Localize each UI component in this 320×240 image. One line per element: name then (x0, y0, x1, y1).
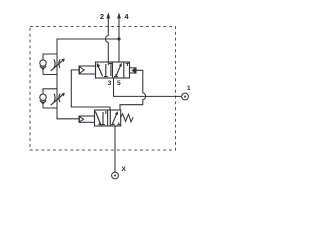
valve V1 5/2 body (96, 62, 130, 78)
valve V2 pilot triangle (79, 117, 83, 122)
valve V2 right position passage (109, 110, 111, 126)
FCV2 throttle arrow (51, 95, 63, 105)
wire port 2 vertical (with hop over wire A) (106, 17, 109, 62)
valve V2 divider (107, 110, 109, 126)
FCV2 check valve seat (40, 100, 46, 103)
valve V1 right position flow arrow (116, 65, 121, 76)
valve V2 3/2 body (95, 110, 121, 126)
port 4 arrow (117, 12, 121, 18)
svg-text:X: X (121, 166, 126, 173)
valve V1 left position passage stub (107, 62, 109, 65)
valve V1 left position blocked port T (104, 64, 108, 77)
wire left pilot of V1 to output of V2 (71, 70, 110, 110)
wire supply: valve V1 port 1 to port 1 circle (114, 78, 182, 96)
FCV2 throttle arcs (54, 94, 60, 102)
svg-text:2: 2 (100, 12, 104, 21)
valve V1 left pilot box (79, 66, 96, 74)
valve V2 left position blocked T (101, 112, 105, 125)
FCV1 check valve ball (40, 60, 46, 66)
valve V1 left pilot triangle (79, 67, 84, 74)
junction dot J1 (117, 37, 120, 40)
port X circle (112, 172, 119, 179)
valve V2 pilot box (79, 116, 95, 122)
valve V1 right position passage (123, 62, 125, 78)
enclosure dashed boundary (30, 27, 176, 151)
valve V2 right position blocked T (111, 122, 115, 125)
FCV1 throttle arrow (51, 61, 63, 71)
valve V1 left position blocked port T2 (109, 63, 113, 76)
valve V1 right position T top (126, 63, 130, 66)
wire port 4 vertical (118, 17, 120, 62)
svg-text:5: 5 (117, 80, 121, 87)
valve V1 divider (112, 62, 114, 78)
port 1 circle (182, 93, 189, 100)
FCV1 throttle arcs (54, 59, 60, 67)
svg-text:1: 1 (187, 85, 191, 92)
valve V2 left position stub (105, 111, 107, 114)
valve V1 right pilot box (130, 68, 137, 73)
valve V1 right pilot triangle (132, 68, 135, 73)
FCV2 check valve ball (40, 94, 46, 100)
valve V2 return spring (121, 114, 134, 122)
valve V2 exhaust T (117, 122, 120, 124)
wire right pilot of V1 to right output of V2 (hop over supply) (120, 70, 146, 110)
valve V1 right position blocked port T (114, 74, 118, 77)
port 2 arrow (106, 12, 110, 18)
flow control valve FCV1 body (43, 54, 57, 75)
wire port X: valve V2 to port X circle (114, 126, 116, 172)
port X inner dot (114, 175, 116, 177)
svg-text:3: 3 (108, 80, 112, 87)
port 1 inner dot (184, 96, 186, 98)
wire A: port 4 branch to flow controls (57, 39, 119, 119)
svg-text:4: 4 (124, 12, 129, 21)
valve V2 right position flow arrow (113, 113, 118, 124)
valve V1 left position flow arrow (97, 64, 102, 76)
FCV1 check valve seat (40, 66, 46, 69)
flow control valve FCV2 body (43, 89, 57, 108)
valve V2 left position flow arrow (95, 111, 100, 124)
